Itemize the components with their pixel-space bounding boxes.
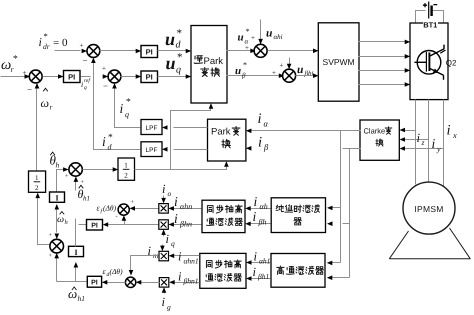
summing junction omega average <box>50 239 64 253</box>
summing junction epsilon_d <box>125 277 135 287</box>
node i_bh label <box>253 209 267 227</box>
svg-text:Park: Park <box>211 127 231 138</box>
svg-text:SVPWM: SVPWM <box>323 57 355 67</box>
node i_beta label <box>258 135 269 153</box>
wire SVPWM to inverter gate 4 <box>359 84 409 86</box>
wire d sum to PI d <box>100 50 140 52</box>
node ix label <box>447 123 458 141</box>
node i_bh1 label <box>253 265 270 281</box>
svg-text:PI: PI <box>91 223 98 230</box>
node iq* label <box>120 98 132 120</box>
wire PI q to inv-Park (uq*) <box>158 76 190 78</box>
svg-text:*: * <box>246 27 250 36</box>
svg-text:i: i <box>258 135 262 151</box>
wire LPF1 to q sum feedback <box>115 85 141 128</box>
block half gain left <box>29 171 46 192</box>
wire v2 into delay filter (hop over v1) <box>343 223 350 225</box>
block Park transform <box>208 119 246 161</box>
node i_g label <box>162 295 172 312</box>
svg-text:x: x <box>452 130 457 140</box>
wire HPF to box2 bottom <box>248 278 271 280</box>
wire box2 to mult3 <box>171 255 200 257</box>
block Clarke transform <box>360 120 399 160</box>
wire i_beta Clarke to Park (hop over v1) <box>343 148 361 150</box>
summing junction beta <box>283 69 296 82</box>
wire theta sum to half block <box>83 169 117 171</box>
node i_ah1 label <box>254 250 271 266</box>
wire inv-Park to beta sum (ub*) <box>227 75 281 77</box>
svg-text:*: * <box>108 133 113 143</box>
node iy label <box>432 136 442 154</box>
svg-text:−: − <box>83 56 88 66</box>
motor IPMSM <box>389 182 470 259</box>
node omega_r hat label <box>41 88 53 111</box>
svg-text:*: * <box>243 61 247 70</box>
svg-text:z: z <box>421 138 425 147</box>
svg-text:ω: ω <box>68 286 77 301</box>
wire theta_h1 line I2 top to theta sum <box>75 219 77 247</box>
svg-text:q: q <box>171 239 175 248</box>
block sync-axis HPF 1 <box>202 200 245 232</box>
svg-text:Park: Park <box>204 56 224 67</box>
wire i_o stub <box>163 196 165 202</box>
svg-text:+: + <box>272 69 276 77</box>
wire v2 into HPF <box>329 277 350 279</box>
svg-text:q: q <box>84 85 87 91</box>
block inverse Park transform <box>191 26 227 104</box>
svg-text:ω: ω <box>41 96 49 110</box>
svg-text:i: i <box>102 134 106 149</box>
wire omega sum to half block left <box>38 195 50 245</box>
wire LPF2 to d sum feedback <box>94 60 141 150</box>
wire beta sum to SVPWM <box>296 75 317 77</box>
wire delay filter to box1 top <box>247 208 272 210</box>
svg-text:q: q <box>125 110 129 119</box>
wire box1 to mult1 <box>171 208 203 210</box>
svg-text:−: − <box>103 81 108 91</box>
svg-text:d: d <box>108 143 113 152</box>
wire mult3 to prod sum (down) <box>131 256 159 274</box>
block SVPWM <box>318 23 359 101</box>
block pure delay filter <box>271 198 325 233</box>
summing junction alpha <box>254 44 267 57</box>
svg-text:I: I <box>55 194 58 203</box>
svg-text:+: + <box>245 44 249 52</box>
svg-text:βhi: βhi <box>304 70 314 78</box>
wire mult4 to prod sum (left) <box>138 282 160 284</box>
node epsilon_d label <box>103 267 124 278</box>
svg-text:*: * <box>13 55 18 65</box>
node ud* label <box>165 28 182 51</box>
battery BT1 <box>423 2 437 19</box>
node iz label <box>417 131 425 147</box>
svg-text:*: * <box>177 52 183 64</box>
node uahi label <box>266 28 283 42</box>
wire battery right lead <box>433 11 444 23</box>
wire alpha sum to SVPWM <box>268 50 317 52</box>
svg-text:i: i <box>253 265 257 279</box>
svg-text:αhi: αhi <box>274 33 283 41</box>
svg-text:ref: ref <box>84 78 91 84</box>
svg-text:u: u <box>165 29 175 49</box>
wire v1 into delay filter <box>329 207 341 209</box>
node i_ah label <box>254 194 268 211</box>
svg-text:Clarke: Clarke <box>364 127 386 136</box>
wire Park to LPF2 (hop over theta line) <box>174 149 208 151</box>
node theta_h1 label <box>78 185 91 202</box>
svg-text:+: + <box>102 65 106 73</box>
svg-text:β: β <box>241 72 246 80</box>
wire phase line x <box>415 100 417 185</box>
node i_bhn label <box>174 211 192 229</box>
wire theta to Park and inv-Park <box>135 163 227 170</box>
node BT1 label <box>423 21 438 30</box>
wire omega_h1 PI output <box>57 281 88 283</box>
wire ubhi injection stub <box>289 58 291 67</box>
block half gain right <box>118 158 135 180</box>
wire theta_h1 up into theta sum <box>75 179 77 191</box>
svg-text:i: i <box>447 123 451 139</box>
wire uahi injection stub <box>260 20 262 43</box>
svg-text:i: i <box>253 209 257 224</box>
svg-text:−: − <box>27 85 32 95</box>
node i_ahn1 label <box>178 250 199 266</box>
svg-text:PI: PI <box>91 280 98 287</box>
svg-text:BT1: BT1 <box>423 21 437 30</box>
svg-text:i: i <box>432 136 436 151</box>
node i_ahn label <box>174 194 192 211</box>
summing junction q-axis <box>108 70 121 83</box>
svg-text:dr: dr <box>43 42 50 51</box>
svg-text:(Δθ): (Δθ) <box>110 267 124 276</box>
node ub* label <box>235 61 247 80</box>
node omega_r* label <box>1 55 18 75</box>
wire tap ix to Clarke <box>402 130 416 132</box>
node omega_h label <box>57 212 68 226</box>
svg-text:+: + <box>280 62 284 70</box>
wire Park to LPF1 (hop over theta line) <box>174 127 208 129</box>
svg-text:i: i <box>120 101 124 116</box>
wire v1 into HPF <box>329 262 341 264</box>
svg-text:2: 2 <box>35 184 39 192</box>
svg-text:i: i <box>162 182 166 196</box>
block PI estimator 2 <box>87 276 101 287</box>
wire mult1 to epsilon_f sum <box>132 208 159 210</box>
node i_m label <box>148 244 160 260</box>
summing junction epsilon_f <box>118 204 129 215</box>
wire i_alpha Clarke to Park <box>248 130 361 132</box>
wire tap v2 (i_beta branch down) <box>349 149 351 278</box>
svg-text:i: i <box>417 131 421 145</box>
wire box1 to mult2 <box>171 224 203 226</box>
svg-text:o: o <box>168 189 172 198</box>
summing junction theta <box>69 163 82 176</box>
svg-text:u: u <box>266 28 273 40</box>
svg-text:LPF: LPF <box>146 125 158 132</box>
svg-text:β: β <box>263 142 269 152</box>
svg-text:i: i <box>178 250 182 264</box>
svg-text:u: u <box>297 64 304 76</box>
node i_bhn1 label <box>178 270 199 286</box>
svg-text:r: r <box>50 103 53 112</box>
svg-text:h: h <box>56 161 60 170</box>
wire delay filter to box1 bottom <box>247 223 272 225</box>
wire SVPWM to inverter gate 3 <box>359 70 409 72</box>
block integrator I1 <box>50 192 65 203</box>
svg-text:1: 1 <box>35 174 39 182</box>
block PI speed <box>64 71 81 83</box>
svg-text:y: y <box>436 145 441 154</box>
svg-text:1: 1 <box>124 162 128 170</box>
block PI d <box>141 46 158 58</box>
node epsilon_f label <box>97 204 117 215</box>
node ua* label <box>238 27 250 46</box>
multiplier box 4 <box>159 278 169 288</box>
node i_o label <box>162 182 172 198</box>
svg-text:h1: h1 <box>83 195 90 203</box>
svg-text:αhn1: αhn1 <box>184 257 199 266</box>
block high pass filter <box>271 254 325 288</box>
svg-text:+: + <box>251 34 255 42</box>
wire tap v1 (i_alpha branch down) <box>340 131 342 263</box>
svg-text:i: i <box>178 270 182 284</box>
svg-text:βhn: βhn <box>179 220 192 229</box>
svg-text:u: u <box>235 65 241 77</box>
wire speed sum to PI <box>43 76 63 78</box>
svg-text:g: g <box>167 303 171 312</box>
svg-text:*: * <box>44 31 48 41</box>
node iq_ref label <box>81 78 91 91</box>
svg-text:α: α <box>264 119 269 129</box>
svg-text:βhn1: βhn1 <box>183 277 199 286</box>
svg-text:PI: PI <box>68 72 75 81</box>
block LPF d <box>141 142 162 157</box>
wire tap iy to Clarke <box>402 148 444 150</box>
svg-text:ω: ω <box>57 214 64 225</box>
transistor Q2 <box>414 45 445 80</box>
svg-text:i: i <box>174 194 178 209</box>
wire PI speed to q sum (with hop) <box>81 76 91 78</box>
wire omega_h1 up into omega sum <box>56 256 58 282</box>
svg-text:+: + <box>80 42 84 50</box>
svg-text:i: i <box>174 211 178 226</box>
svg-text:= 0: = 0 <box>53 37 68 49</box>
wire omega_h1 junction to I2 <box>75 265 77 282</box>
svg-text:u: u <box>238 32 244 44</box>
block PI q <box>141 71 158 83</box>
svg-text:q: q <box>176 65 181 76</box>
wire i_q stub into mult2 <box>163 232 165 237</box>
node theta_h label <box>50 152 60 169</box>
svg-text:i: i <box>254 250 258 264</box>
svg-text:IPMSM: IPMSM <box>414 204 443 214</box>
svg-text:i: i <box>39 35 42 49</box>
svg-text:βh1: βh1 <box>257 272 269 281</box>
svg-text:+: + <box>49 253 53 259</box>
node ubhi label <box>297 64 313 78</box>
svg-text:PI: PI <box>146 73 153 82</box>
multiplier box 3 <box>159 251 169 260</box>
svg-text:(Δθ): (Δθ) <box>103 204 117 213</box>
svg-text:LPF: LPF <box>146 147 158 154</box>
node omega_h1 label <box>68 286 85 303</box>
wire phase line y <box>443 100 445 187</box>
svg-text:i: i <box>166 232 170 246</box>
wire HPF to box2 top <box>248 262 271 264</box>
summing junction d-axis <box>87 45 100 58</box>
wire battery left lead <box>416 11 426 23</box>
block LPF q <box>141 120 162 135</box>
node idr*=0 label <box>39 31 68 51</box>
svg-text:αhn: αhn <box>180 202 192 211</box>
svg-text:I: I <box>74 248 77 257</box>
wire phase line z <box>428 100 430 183</box>
node i_alpha label <box>258 111 269 129</box>
svg-text:h: h <box>65 219 68 226</box>
svg-text:2: 2 <box>124 172 128 180</box>
svg-text:+: + <box>23 69 27 77</box>
wire omega_r* input <box>1 76 81 78</box>
svg-text:αh1: αh1 <box>259 257 270 266</box>
multiplier box 2 <box>159 220 169 230</box>
wire inv-Park to alpha sum (ua*) <box>227 50 253 52</box>
wire tap iz to Clarke <box>402 139 429 141</box>
svg-text:*: * <box>177 28 183 40</box>
node id* label <box>102 133 113 152</box>
svg-text:+: + <box>49 233 53 239</box>
svg-text:i: i <box>162 295 166 309</box>
svg-text:+: + <box>81 180 85 186</box>
wire omega_r feedback vertical <box>36 85 38 171</box>
summing junction speed <box>29 70 42 83</box>
wire SVPWM to inverter gate 1 <box>359 41 409 43</box>
svg-text:r: r <box>11 65 15 74</box>
wire i_g stub <box>164 289 166 294</box>
wire q sum to PI q <box>121 76 140 78</box>
svg-text:Q2: Q2 <box>446 59 457 68</box>
svg-text:h1: h1 <box>78 294 86 303</box>
svg-text:βh: βh <box>258 218 267 227</box>
multiplier box 1 <box>159 204 169 214</box>
wire PI d to inv-Park (ud*) <box>158 50 190 52</box>
wire SVPWM to inverter gate 2 <box>359 56 409 58</box>
block integrator I2 <box>69 246 84 256</box>
svg-text:*: * <box>126 98 131 108</box>
svg-text:αh: αh <box>260 202 268 211</box>
node uq* label <box>166 52 183 76</box>
wire epsilon_d to PI2 <box>104 282 126 284</box>
wire i_m stub <box>162 245 164 250</box>
svg-text:d: d <box>176 40 182 51</box>
wire box2 to mult4 <box>171 282 200 284</box>
svg-text:u: u <box>166 53 176 73</box>
wire omega_h to I1 and omega sum (hop over theta_h1 line) <box>79 224 87 226</box>
wire idr* to d sum <box>55 50 81 52</box>
node i_q label lower <box>166 232 176 248</box>
block PI estimator 1 <box>87 220 103 231</box>
svg-text:-: - <box>116 214 118 220</box>
wire mult2 to T junction to PI and epsilon sum <box>105 218 159 225</box>
svg-text:i: i <box>81 80 83 89</box>
svg-text:+: + <box>65 174 69 180</box>
svg-text:PI: PI <box>146 47 153 56</box>
block sync-axis HPF 2 <box>200 253 246 288</box>
svg-text:i: i <box>254 194 258 209</box>
svg-text:i: i <box>258 111 262 127</box>
inverter block <box>410 23 448 100</box>
wire I1 to theta sum <box>57 170 67 193</box>
wire theta branch to inv-Park bottom <box>171 105 211 170</box>
svg-text:+: + <box>131 200 135 206</box>
